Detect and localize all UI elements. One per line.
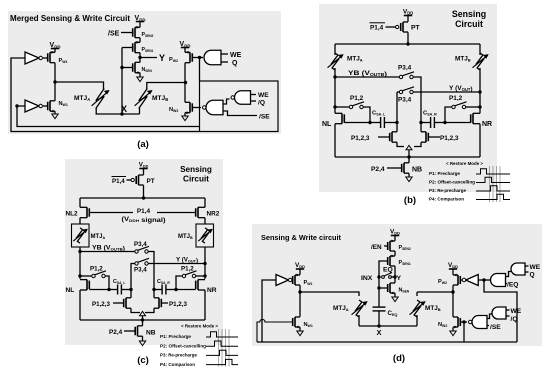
svg-text:P1,2,3: P1,2,3 [440, 135, 459, 142]
transistor PT (c) [136, 175, 143, 185]
svg-text:Q: Q [232, 60, 238, 67]
wire AND5 input Q [525, 271, 529, 273]
switch EQ [382, 273, 392, 279]
transistor latch M2 (NMOS) [421, 132, 428, 142]
wire P1,2 left to NL gate node [363, 107, 370, 123]
transistor NL2 [80, 207, 89, 217]
panel (c) background [65, 159, 223, 345]
transistor NL [335, 113, 344, 123]
wire NW2 gate to AND6 output [460, 321, 467, 323]
wire PSEN1 drain to NSEN drain (Y node) [139, 53, 141, 63]
wire switch lower to left cap node [396, 92, 398, 123]
wire MTJB box to NR drain (c) [204, 247, 206, 279]
node NR gate (c) [174, 288, 177, 291]
wire top rail [335, 43, 480, 45]
switch P3,4 upper (YB to right cap) [399, 72, 414, 79]
wire NAND3 input /Q [251, 100, 257, 102]
wire PSEN2 drain to PSEN1 source [139, 38, 141, 43]
wire left rail to P1,2 switch [335, 106, 349, 108]
wire AND7 input WE [506, 309, 510, 311]
node top rail [406, 42, 409, 45]
svg-text:P1,2,3: P1,2,3 [351, 135, 370, 142]
wire YB rail [335, 76, 399, 78]
wire PW1 drain down to node W1 [54, 63, 56, 82]
wire bottom feedback rail (d) [257, 341, 517, 343]
transistor NR (c) [196, 280, 205, 290]
svg-text:/Q: /Q [511, 316, 518, 323]
node W2 (d) [451, 290, 454, 293]
svg-text:P3,4: P3,4 [134, 267, 147, 274]
capacitor CSA_L [381, 117, 385, 128]
wire bottom rail [335, 156, 480, 158]
node NR gate / CSA_R [443, 121, 446, 124]
wire CEQ to X rail [378, 311, 380, 326]
wire PSEN1 gate to INX vertical [379, 261, 388, 307]
wire M1 source to common [397, 142, 404, 146]
legend grid lines [219, 329, 230, 367]
wire M1 source to common (c) [131, 308, 140, 312]
transistor PSEN2 (d) [388, 241, 395, 251]
node YB (c) [78, 250, 81, 253]
transistor NR2 [196, 207, 205, 217]
transistor NSEN (d) [388, 283, 395, 293]
transistor PT (PMOS) [401, 22, 408, 32]
svg-text:WE: WE [230, 52, 242, 59]
svg-text:Q: Q [530, 272, 535, 279]
svg-text:< Restore Mode >: < Restore Mode > [446, 161, 483, 167]
node W1 (d) [298, 290, 301, 293]
svg-text:NB: NB [412, 167, 422, 174]
node PW2 gate feedback tap [198, 56, 201, 59]
svg-text:P1,2: P1,2 [90, 266, 103, 273]
wire NSEN source to ground [394, 293, 396, 297]
transistor latch M1 (NMOS) [390, 132, 397, 142]
wire NW1 source to ground [54, 111, 56, 114]
wire PSEN1 drain to NSEN drain [394, 266, 396, 283]
wire node W1 to MTJA top [55, 82, 104, 90]
svg-text:NR: NR [482, 121, 492, 128]
wire EQ switch to Y node [391, 276, 395, 278]
gate NAND3 (WE,/Q) [235, 91, 251, 105]
wire bottom rail (c) [80, 319, 205, 321]
wire M2 source to common [414, 142, 421, 146]
svg-text:/EN: /EN [371, 244, 382, 251]
wire left rail to NL2 [79, 198, 81, 207]
node YB on left rail [333, 75, 336, 78]
wire NL gate lead [344, 122, 370, 124]
svg-text:P3,4: P3,4 [398, 65, 412, 72]
MTJ B (panel d) [414, 300, 420, 317]
wire P2,4 to NB gate [387, 167, 402, 169]
svg-text:P1,4: P1,4 [370, 25, 384, 32]
panel (d) background [252, 224, 542, 346]
wire NL2 source down [79, 218, 81, 224]
gate AND6 for NW2 [472, 316, 487, 329]
wire NR gate lead (c) [176, 289, 196, 291]
node latch right [419, 121, 422, 124]
wire P1,2,3 to M2 gate [428, 136, 440, 138]
node P1,2 tap right (c) [203, 274, 206, 277]
svg-text:Sensing: Sensing [180, 165, 212, 174]
transistor PW1 (d) [293, 275, 300, 285]
panel (b) background [319, 4, 497, 192]
wire NL2 gate toward center [89, 212, 133, 214]
wire inverter1 output to PW1 gate [43, 57, 48, 59]
MTJ A (panel b) [332, 53, 338, 70]
transistor NW1 (d) [293, 317, 300, 327]
wire MTJA box to NL drain (c) [79, 247, 81, 279]
svg-text:NB: NB [146, 330, 156, 337]
wire MTJB top to node W2 [147, 83, 186, 90]
wire YB rail (c) [80, 251, 135, 253]
node Y [138, 56, 141, 59]
svg-text:Sensing: Sensing [452, 9, 486, 19]
svg-text:/SE: /SE [490, 324, 501, 331]
transistor PSEN1 (d) [388, 256, 395, 266]
node latch left [395, 121, 398, 124]
svg-text:Sensing & Write circuit: Sensing & Write circuit [261, 233, 341, 242]
capacitor CSA_R [431, 117, 435, 128]
ground below NB (c) [139, 341, 145, 346]
gate NAND1 (WE,Q) for PW2 [204, 50, 221, 65]
MTJ B (panel a) [139, 89, 147, 109]
svg-text:P1,2: P1,2 [449, 95, 463, 102]
wire right rail to P1,2 switch [466, 106, 480, 108]
node Y (c) [203, 262, 206, 265]
svg-text:/SE: /SE [259, 114, 270, 121]
svg-text:WE: WE [258, 92, 269, 99]
svg-text:(VDDH signal): (VDDH signal) [122, 216, 166, 224]
inverter U3 (d) facing left [466, 275, 479, 286]
wire PSEN1 gate to X feedback line [122, 47, 132, 49]
svg-text:/SE: /SE [108, 31, 120, 38]
svg-text:P3,4: P3,4 [134, 241, 147, 248]
gate group box (lower right) [200, 81, 279, 132]
wire bottom rail to NB drain [408, 157, 410, 163]
svg-text:INX: INX [361, 275, 373, 282]
node NL gate / CSA_L [368, 121, 371, 124]
wire P1,2,3 to M1 gate (c) [113, 302, 124, 304]
wire node W2 left to MTJB (d) [417, 291, 453, 293]
wire to P1,2 left (c) [80, 275, 92, 277]
svg-text:X: X [376, 328, 381, 337]
MTJ A (panel d) [356, 300, 362, 317]
svg-text:Circuit: Circuit [455, 19, 483, 29]
legend grid lines [490, 166, 501, 202]
svg-text:NR: NR [207, 287, 217, 294]
wire /EN to PSEN2 gate [384, 245, 387, 247]
wire left rail to MTJA [334, 44, 336, 55]
svg-text:NL: NL [66, 287, 75, 294]
switch P1,2 right (c) [182, 271, 196, 278]
wire Y rail (c) [148, 263, 205, 265]
switch P3,4 lower (c) [135, 258, 149, 265]
wire PW1 drain to node W1 (d) [299, 285, 301, 292]
ground below NW1 (d) [297, 331, 303, 336]
ground below NW2 [182, 116, 188, 121]
svg-text:P1,2,3: P1,2,3 [92, 301, 110, 308]
svg-text:P2,4: P2,4 [371, 166, 385, 173]
wire MTJB to X rail (d) [416, 315, 418, 326]
PT gate bubble [396, 25, 399, 28]
svg-text:P1,4: P1,4 [112, 178, 125, 185]
svg-text:(d): (d) [393, 353, 405, 364]
svg-text:P1,2: P1,2 [181, 266, 194, 273]
wire NR source to bottom rail (c) [204, 290, 206, 320]
panel (a) background [8, 11, 281, 134]
svg-text:P2,4: P2,4 [109, 329, 123, 336]
svg-text:P1: Precharge: P1: Precharge [160, 334, 191, 339]
wire switch lower left stub [397, 91, 399, 93]
switch P1,2 left (c) [92, 271, 106, 278]
wire P1,2 left to NL gate node (c) [105, 276, 109, 290]
wire PT drain to top rail (c) [143, 185, 145, 198]
svg-text:P3: Re-precharge: P3: Re-precharge [160, 353, 197, 358]
node PW2 feedback tap [482, 278, 485, 281]
transistor NW1 (NMOS) [48, 101, 55, 111]
ground below NW1 [52, 114, 58, 119]
gate AND7 (WE,/Q) [492, 307, 506, 319]
wire P1,4 to PT gate (c) [127, 179, 132, 181]
transistor PSEN1 (PMOS) [133, 42, 140, 52]
wire M2 source to common (c) [145, 308, 154, 312]
transistor NL (c) [80, 280, 89, 290]
node W1 [53, 80, 56, 83]
wire P1,4 to PT gate [386, 26, 396, 28]
node top rail (c) [142, 196, 145, 199]
wire PW2 drain down to node W2 [184, 63, 186, 83]
svg-text:Y: Y [397, 275, 402, 282]
wire switch upper to right cap node [413, 77, 421, 123]
node X [120, 112, 123, 115]
wire to CSA_L (c) [109, 289, 118, 291]
wire /SE to PSEN2 gate [121, 32, 132, 34]
node on X feedback at NSEN gate [120, 66, 123, 69]
wire NW1 gate with bridge hump [257, 319, 293, 342]
svg-text:< Restore Mode >: < Restore Mode > [181, 324, 218, 329]
X rail (d) [359, 325, 417, 327]
wire AND2 input from NAND3 output [223, 99, 230, 104]
wire latch left node to M1 drain (c) [130, 290, 132, 298]
MTJ A (panel a) [96, 89, 104, 109]
wire CSA_L right plate to latch left node [384, 122, 397, 124]
wire CSA_R to latch right node (c) [154, 289, 162, 291]
node NSEN gate (d) [377, 286, 380, 289]
svg-text:NL2: NL2 [66, 211, 79, 218]
svg-text:P1,2,3: P1,2,3 [169, 301, 187, 308]
wire NR2 gate toward center [157, 212, 196, 214]
wire inverter1 input feedback vertical (d) [262, 280, 276, 342]
gate AND5 (WE,Q) [511, 263, 525, 275]
wire NR source to bottom rail [479, 124, 481, 157]
inverter U1 (d) [276, 275, 289, 286]
transistor NW2 (NMOS) [185, 102, 192, 112]
transistor latch M2 (c) [154, 298, 161, 308]
wire node W2 to MTJB (d) [416, 292, 418, 296]
svg-text:Y: Y [159, 53, 165, 63]
wire NL source to bottom rail [334, 124, 336, 157]
wire right rail to MTJB [479, 44, 481, 55]
transistor NB (NMOS) [402, 163, 409, 173]
wire MTJA to X rail (d) [358, 315, 360, 326]
wire PSEN2 to PSEN1 [394, 251, 396, 256]
node Y (d) [393, 275, 396, 278]
wire X rail to MTJB bottom [139, 108, 141, 114]
ground below NB [406, 177, 412, 182]
wire switch lower to left cap node (c) [131, 264, 135, 290]
svg-text:/EQ: /EQ [507, 282, 518, 289]
node W2 [184, 81, 187, 84]
node latch right (c) [152, 288, 155, 291]
inverter U1 driving PW1 [25, 52, 39, 64]
wire CSA_R left plate to latch right node [421, 122, 431, 124]
wire AND4 input /EQ [506, 283, 508, 285]
svg-text:Circuit: Circuit [183, 175, 209, 184]
svg-text:P1,2: P1,2 [350, 95, 364, 102]
PT (c) gate bubble [131, 178, 134, 181]
wire node W2 down to NW2 drain [184, 83, 186, 103]
transistor PW2 (d) [453, 275, 460, 285]
wire NAND1 input Q [221, 61, 228, 63]
svg-text:P1,4: P1,4 [137, 208, 151, 215]
switch P1,2 right [452, 102, 467, 109]
ground below NSEN (d) [392, 297, 398, 302]
wire to P1,2 right (c) [196, 275, 205, 277]
wire P1,2,3 to M2 gate (c) [161, 302, 168, 304]
wire NB source to ground (c) [142, 336, 144, 341]
ground below NSEN [137, 77, 143, 82]
wire node W1 to MTJA (d) [300, 292, 359, 296]
wire NB source to ground [408, 173, 410, 177]
wire AND6 input /SE [487, 325, 489, 327]
wire CSA_L to latch left node (c) [121, 289, 131, 291]
wire latch left node to M1 drain [396, 123, 398, 132]
wire MTJA bottom to X rail [96, 108, 139, 114]
switch P3,4 upper (c) [135, 246, 149, 253]
wire AND4 input from AND5 [506, 272, 512, 277]
wire P1,2,3 to M1 gate [378, 136, 390, 138]
wire to CSA_R right plate [434, 122, 445, 124]
wire NSEN gate to X feedback line [122, 67, 132, 69]
wire feedback tap down to bottom rail (d) [463, 322, 465, 342]
wire MTJB to NR drain [479, 68, 481, 113]
wire NW2 gate to AND2 output [192, 107, 201, 109]
wire NSEN source to ground [139, 73, 141, 77]
svg-text:WE: WE [530, 264, 541, 271]
node P1,2 tap left (c) [78, 274, 81, 277]
svg-text:P3,4: P3,4 [398, 97, 412, 104]
wire bottom rail to NB (c) [142, 320, 144, 326]
wire P2,4 to NB gate (c) [124, 330, 135, 332]
svg-text:WE: WE [511, 308, 522, 315]
node bottom rail (c) [141, 318, 144, 321]
transistor PW2 (PMOS) [185, 52, 192, 62]
node INX [377, 275, 380, 278]
common source arrow node [406, 145, 412, 149]
wire NW2 source to ground (d) [452, 327, 454, 331]
wire AND6 input from AND7 [487, 314, 492, 319]
wire to CSA_R (c) [166, 289, 176, 291]
wire NW2 source to ground [184, 113, 186, 116]
svg-text:P3: Re-precharge: P3: Re-precharge [429, 188, 466, 194]
wire PT drain to top rail [407, 32, 409, 44]
svg-text:PT: PT [147, 178, 155, 185]
svg-text:Merged Sensing & Write Circuit: Merged Sensing & Write Circuit [10, 13, 130, 23]
wire to CSA_L left plate [370, 122, 381, 124]
wire latch right node to M2 drain (c) [153, 290, 155, 298]
node P1,2 tap right [478, 105, 481, 108]
svg-text:NL: NL [322, 121, 332, 128]
svg-text:(a): (a) [137, 139, 149, 150]
wire node W2 to NW2 drain (d) [452, 292, 454, 317]
node Y right rail [478, 90, 481, 93]
node P1,2 tap left [333, 105, 336, 108]
transistor NSEN (NMOS) [133, 62, 140, 72]
node bottom rail center [407, 155, 410, 158]
svg-text:P1: Precharge: P1: Precharge [429, 171, 460, 177]
wire common to bottom rail (c) [142, 316, 144, 320]
wire NSEN gate to INX vertical [379, 287, 388, 289]
wire latch right node to M2 drain [420, 123, 422, 132]
wire NAND3 input WE [251, 94, 257, 96]
switch P3,4 lower (Y to left cap) [399, 87, 414, 94]
node inverter2 input [15, 104, 18, 107]
ground below NW2 (d) [450, 331, 456, 336]
svg-text:P2: Offset-cancelling: P2: Offset-cancelling [160, 343, 206, 348]
wire node W1 down to NW1 drain [54, 82, 56, 101]
wire node W1 to NW1 drain (d) [299, 292, 301, 317]
wire AND7 input /Q [506, 315, 510, 317]
wire switch upper to right cap node (c) [148, 252, 154, 290]
wire Y output [140, 57, 157, 59]
svg-text:PT: PT [411, 25, 421, 32]
wire AND2 input /SE [223, 111, 257, 116]
wire NW1 source to ground (d) [299, 327, 301, 331]
wire inverter input to AND4 output [478, 279, 490, 281]
gate AND2 for NW2 [206, 100, 223, 115]
svg-text:P4: Comparison: P4: Comparison [429, 197, 464, 203]
MTJ A box (c) [72, 224, 90, 247]
wire top rail (c) [80, 197, 205, 199]
transistor NB (c) [135, 326, 142, 336]
transistor latch M1 (c) [124, 298, 131, 308]
wire Y rail [413, 91, 480, 93]
MTJ A (panel c) [77, 228, 82, 243]
wire NR gate lead [445, 122, 471, 124]
gate AND4 (WE,Q,/EQ side) [491, 274, 506, 287]
wire P1,2 right to NR gate node (c) [176, 276, 182, 290]
svg-text:NR2: NR2 [207, 211, 220, 218]
node NL gate (c) [107, 288, 110, 291]
feedback loop wire PW2 side (d) [484, 280, 517, 342]
wire feedback to inverter1 input (left/bottom) [11, 58, 200, 132]
MTJ B (panel c) [202, 228, 207, 243]
svg-text:Y (VOUT): Y (VOUT) [449, 85, 473, 93]
wire feedback to inverter2 input [17, 106, 200, 127]
MTJ B box (c) [196, 224, 214, 247]
inverter U2 driving NW1 [25, 100, 39, 112]
svg-text:(b): (b) [404, 195, 416, 206]
capacitor CSA_L (c) [118, 285, 122, 295]
switch P1,2 left [349, 102, 364, 109]
wire NL gate lead (c) [89, 289, 109, 291]
node latch left (c) [129, 288, 132, 291]
wire NR2 source down [204, 218, 206, 224]
wire MTJA to NL drain [334, 68, 336, 113]
svg-text:/Q: /Q [258, 100, 265, 107]
wire right rail to NR2 [204, 198, 206, 207]
wire PW2 gate to NAND1 output [192, 57, 203, 59]
